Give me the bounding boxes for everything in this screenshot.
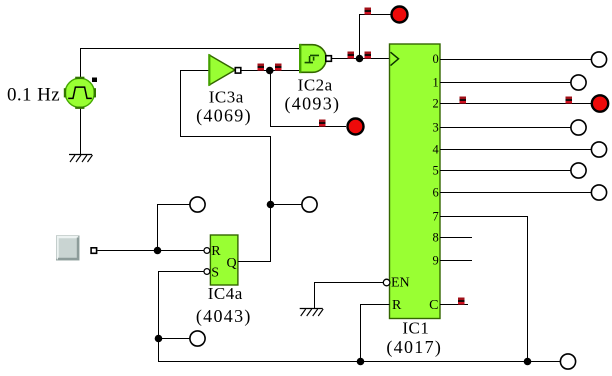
terminal on S net xyxy=(190,331,205,346)
wire S input to bottom net xyxy=(159,272,204,339)
svg-text:IC2a: IC2a xyxy=(298,76,333,95)
EN inversion bubble xyxy=(383,279,390,286)
junction on R net xyxy=(154,247,162,255)
svg-text:0: 0 xyxy=(432,52,438,66)
ground GND2 xyxy=(300,309,324,317)
svg-text:IC1: IC1 xyxy=(402,319,429,338)
wire output 6 xyxy=(440,192,591,194)
svg-text:IC4a: IC4a xyxy=(208,284,243,303)
svg-text:R: R xyxy=(211,244,221,259)
wire clock to ground xyxy=(80,106,82,155)
wire S junction to terminal xyxy=(159,338,190,340)
wire clock junction to LED D1 xyxy=(360,15,392,59)
wire IC3a output to IC2a input B xyxy=(241,70,300,72)
svg-text:2: 2 xyxy=(432,97,438,111)
label IC1 (4017) xyxy=(386,319,442,359)
svg-text:R: R xyxy=(392,298,402,313)
inverter IC3a xyxy=(209,54,241,86)
wire Q output to node Q xyxy=(238,205,271,262)
svg-text:(4069): (4069) xyxy=(196,106,252,127)
wire clock top to IC2a input A xyxy=(81,49,301,81)
terminal output 0 xyxy=(591,52,606,67)
svg-text:EN: EN xyxy=(391,275,410,290)
wire output 2 xyxy=(440,103,592,105)
wire output 0 xyxy=(440,59,591,61)
wire bottom net to terminal xyxy=(528,361,561,363)
wire output 8 stub xyxy=(440,237,472,239)
junction on clock net xyxy=(356,55,364,63)
indicator on IC3a output wire right xyxy=(275,64,281,71)
indicator on LED D1 wire xyxy=(365,8,371,15)
svg-text:(4043): (4043) xyxy=(196,306,252,327)
svg-text:8: 8 xyxy=(432,231,438,245)
terminal output 4 xyxy=(591,142,606,157)
indicator right of clock junction xyxy=(365,52,371,59)
wire junction to LED D2 xyxy=(271,71,346,127)
nand gate IC2a xyxy=(300,44,331,73)
svg-text:0.1 Hz: 0.1 Hz xyxy=(7,84,60,105)
svg-text:7: 7 xyxy=(432,210,438,224)
lamp output 2 (on) xyxy=(592,95,608,111)
svg-text:Q: Q xyxy=(227,256,237,271)
svg-text:S: S xyxy=(211,266,219,281)
indicator on IC3a output wire left xyxy=(258,64,264,71)
IC4a R bubble xyxy=(204,248,210,254)
wire R net junction to terminal xyxy=(158,205,190,251)
indicator before LED D2 xyxy=(319,120,325,127)
svg-text:3: 3 xyxy=(432,121,438,135)
indicator on C stub xyxy=(458,298,464,305)
indicator output 2 near lamp xyxy=(566,97,572,104)
ground GND1 xyxy=(69,155,93,163)
indicator left of clock junction xyxy=(348,52,354,59)
wire output 5 xyxy=(440,170,571,172)
label IC2a (4093) xyxy=(285,76,341,115)
wire C stub xyxy=(440,304,468,306)
svg-text:5: 5 xyxy=(432,164,438,178)
svg-text:9: 9 xyxy=(432,254,438,268)
IC4a 4043 body xyxy=(210,235,238,285)
svg-text:6: 6 xyxy=(432,186,438,200)
wire bottom net xyxy=(159,339,528,362)
wire EN to ground xyxy=(315,283,384,309)
LED D1 xyxy=(392,7,408,23)
junction bottom net at output 7 xyxy=(524,358,532,366)
terminal output 3 xyxy=(571,120,586,135)
wire output 9 stub xyxy=(440,260,472,262)
IC4a S bubble xyxy=(204,269,210,275)
wire output 3 xyxy=(440,127,571,129)
svg-text:(4017): (4017) xyxy=(386,337,442,358)
pushbutton SW1 xyxy=(57,236,80,260)
wire button to R input of IC4a xyxy=(97,250,203,252)
wire IC2a output to IC1 clock input xyxy=(332,58,390,60)
indicator output 2 near IC1 xyxy=(460,97,466,104)
wire output 7 to bottom net xyxy=(440,217,528,362)
junction bottom net at R xyxy=(357,358,365,366)
terminal output 1 xyxy=(571,75,586,90)
terminal output 6 xyxy=(591,185,606,200)
junction on IC3a output net xyxy=(266,67,274,75)
terminal on R net xyxy=(190,197,205,212)
svg-text:1: 1 xyxy=(432,76,438,90)
svg-text:(4093): (4093) xyxy=(285,93,341,114)
terminal on node Q xyxy=(302,197,317,212)
junction node Q xyxy=(267,201,275,209)
svg-text:4: 4 xyxy=(432,143,439,157)
label IC4a (4043) xyxy=(196,284,252,327)
pushbutton terminal node xyxy=(91,248,97,254)
wire IC3a input from node Q xyxy=(181,71,271,205)
wire R pin to bottom net xyxy=(361,305,390,362)
wire output 1 xyxy=(440,82,571,84)
IC1 clock chevron xyxy=(391,52,399,65)
wire output 4 xyxy=(440,149,591,151)
terminal on bottom net xyxy=(560,354,575,369)
svg-text:C: C xyxy=(429,298,438,313)
clock state marker xyxy=(92,77,97,82)
clock source 0.1 Hz xyxy=(64,77,96,109)
label IC3a (4069) xyxy=(196,87,252,126)
wire node Q to terminal xyxy=(271,204,302,206)
terminal output 5 xyxy=(571,163,586,178)
IC1 4017 body xyxy=(390,44,441,319)
LED D2 xyxy=(348,119,364,135)
junction on S net xyxy=(155,335,163,343)
svg-text:IC3a: IC3a xyxy=(209,87,244,106)
